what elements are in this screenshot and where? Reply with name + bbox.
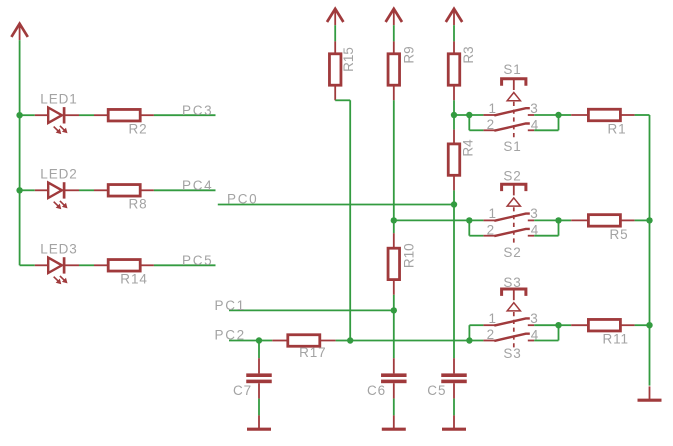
ground right rail bbox=[649, 386, 651, 399]
svg-text:R11: R11 bbox=[603, 331, 629, 346]
wire net PC0 bbox=[218, 204, 454, 206]
svg-text:S1: S1 bbox=[503, 62, 521, 77]
svg-text:C5: C5 bbox=[427, 383, 446, 398]
svg-text:R2: R2 bbox=[129, 122, 148, 137]
pushbutton S3 bbox=[483, 289, 534, 349]
resistor R2 bbox=[94, 114, 108, 116]
wire LED2 cathode to R8 bbox=[79, 189, 94, 191]
wire C7 to ground bbox=[258, 399, 260, 416]
svg-text:R8: R8 bbox=[129, 197, 148, 212]
svg-text:1: 1 bbox=[489, 311, 497, 326]
wire R5 to right rail bbox=[635, 219, 650, 221]
svg-text:R1: R1 bbox=[608, 122, 627, 137]
svg-text:PC0: PC0 bbox=[227, 192, 258, 207]
VCC arrow above R9 bbox=[386, 9, 402, 22]
wire PC2 row to S3 pin2 bbox=[350, 340, 483, 342]
wire R1 to right rail corner bbox=[635, 114, 650, 116]
junction PC2/S3 jog bbox=[466, 337, 472, 343]
wire S2 pin4 up to junction bbox=[534, 235, 558, 237]
svg-text:R3: R3 bbox=[461, 46, 476, 63]
LED LED2 bbox=[35, 189, 48, 191]
svg-text:LED3: LED3 bbox=[40, 241, 77, 256]
svg-text:R9: R9 bbox=[401, 46, 416, 63]
svg-text:PC2: PC2 bbox=[215, 328, 246, 343]
resistor R11 bbox=[559, 324, 572, 326]
svg-text:2: 2 bbox=[487, 327, 495, 342]
svg-text:S2: S2 bbox=[503, 168, 521, 183]
junction S1 pins3-4 bbox=[555, 112, 561, 118]
ground below C6 bbox=[393, 415, 395, 428]
wire right rail vertical bbox=[649, 115, 651, 386]
LED LED1 bbox=[35, 114, 48, 116]
wire x454 column PC0 down to C5 bbox=[453, 205, 455, 359]
junction PC1/R10 bbox=[391, 307, 397, 313]
svg-text:3: 3 bbox=[530, 311, 538, 326]
resistor R3 bbox=[453, 41, 455, 53]
wire S2 row1 from R10 junction to pin1 bbox=[394, 219, 484, 221]
wire LED1 cathode to R2 bbox=[79, 114, 94, 116]
capacitor C6 bbox=[381, 358, 407, 398]
svg-text:LED1: LED1 bbox=[40, 92, 77, 107]
wire S2 pin3 to junction bbox=[534, 219, 558, 221]
svg-text:PC1: PC1 bbox=[215, 298, 246, 313]
junction S2 row1/R10 bbox=[391, 217, 397, 223]
wire S2 jog pin1/pin2 bbox=[468, 220, 470, 235]
wire R10 bottom through PC1 to C6 bbox=[393, 295, 395, 358]
svg-text:S2: S2 bbox=[503, 245, 521, 260]
svg-text:R4: R4 bbox=[460, 139, 475, 157]
junction PC2/C7 bbox=[256, 337, 262, 343]
wire C6 to ground bbox=[393, 399, 395, 416]
svg-text:PC3: PC3 bbox=[182, 103, 213, 118]
resistor R5 bbox=[559, 219, 572, 221]
wire S3 jog row2 to row1 bbox=[468, 325, 470, 340]
wire LED1 row from rail to LED anode bbox=[20, 114, 35, 116]
wire R17 to x350 junction bbox=[336, 340, 351, 342]
resistor R17 bbox=[272, 340, 288, 342]
wire net PC5 stub bbox=[154, 264, 216, 266]
wire LED3 row from rail to LED anode bbox=[20, 264, 35, 266]
wire net PC4 stub bbox=[154, 189, 216, 191]
junction S2 jog bbox=[466, 217, 472, 223]
wire C5 to ground bbox=[453, 399, 455, 416]
resistor R10 bbox=[393, 233, 395, 248]
resistor R1 bbox=[559, 114, 572, 116]
capacitor C7 bbox=[246, 358, 272, 398]
wire net PC3 stub bbox=[154, 114, 216, 116]
wire PC2 to R17 bbox=[259, 340, 272, 342]
svg-text:1: 1 bbox=[489, 101, 497, 116]
wire S3 pin4 up to junction bbox=[534, 340, 558, 342]
svg-text:S1: S1 bbox=[503, 139, 521, 154]
wire net PC1 bbox=[229, 309, 394, 311]
svg-text:LED2: LED2 bbox=[40, 167, 77, 182]
junction S3 pins3-4 bbox=[555, 322, 561, 328]
wire PC2 down to C7 bbox=[258, 341, 260, 359]
wire left VCC rail vertical bbox=[19, 40, 21, 265]
wire VCC to R3 bbox=[453, 25, 455, 41]
wire VCC to R15 bbox=[334, 25, 336, 41]
wire LED3 cathode to R14 bbox=[79, 264, 94, 266]
svg-text:3: 3 bbox=[530, 101, 538, 116]
wire VCC to R9 bbox=[393, 25, 395, 41]
junction R5/right rail bbox=[646, 217, 652, 223]
wire S1 jog pin1/pin2 bbox=[468, 115, 470, 130]
VCC arrow above R15 bbox=[327, 9, 343, 22]
svg-text:PC4: PC4 bbox=[182, 178, 213, 193]
junction rail/LED2 bbox=[16, 187, 22, 193]
junction R11/right rail bbox=[646, 322, 652, 328]
wire S1 row1 from column to pin1 bbox=[454, 114, 483, 116]
svg-text:R17: R17 bbox=[299, 345, 326, 360]
svg-text:R14: R14 bbox=[120, 272, 147, 287]
junction S1 row1/column bbox=[451, 112, 457, 118]
wire x350 column down to PC2 bbox=[349, 100, 351, 340]
wire S3 pin3 to junction bbox=[534, 324, 558, 326]
resistor R4 bbox=[453, 115, 455, 130]
ground below C5 bbox=[453, 415, 455, 428]
svg-text:2: 2 bbox=[487, 222, 495, 237]
junction rail/LED1 bbox=[16, 112, 22, 118]
svg-text:2: 2 bbox=[487, 117, 495, 132]
VCC arrow left supply bbox=[11, 24, 27, 37]
wire R9 down to S2 row bbox=[393, 100, 395, 233]
wire LED2 row from rail to LED anode bbox=[20, 189, 35, 191]
svg-text:R15: R15 bbox=[341, 47, 356, 72]
resistor R14 bbox=[94, 264, 108, 266]
LED LED3 bbox=[35, 264, 48, 266]
wire net PC2 left segment bbox=[229, 340, 259, 342]
junction S2 pins3-4 bbox=[555, 217, 561, 223]
VCC arrow above R3 bbox=[446, 9, 462, 22]
wire S1 pin3 to junction bbox=[534, 114, 558, 116]
pushbutton S1 bbox=[483, 79, 534, 139]
junction PC0/R4 bbox=[451, 201, 457, 207]
wire R3 to S1 row bbox=[453, 100, 455, 115]
wire R4 bottom to PC0 junction bbox=[453, 190, 455, 204]
resistor R8 bbox=[94, 189, 108, 191]
svg-text:PC5: PC5 bbox=[182, 253, 213, 268]
svg-text:S3: S3 bbox=[503, 346, 521, 361]
wire R11 to right rail bbox=[635, 324, 650, 326]
ground below C7 bbox=[258, 415, 260, 428]
resistor R9 bbox=[393, 41, 395, 53]
wire R15 jog to x350 column bbox=[335, 99, 350, 101]
svg-text:R5: R5 bbox=[610, 227, 629, 242]
svg-text:3: 3 bbox=[530, 206, 538, 221]
pushbutton S2 bbox=[483, 184, 534, 244]
svg-text:S3: S3 bbox=[503, 275, 521, 290]
svg-text:C6: C6 bbox=[367, 383, 386, 398]
junction S1 jog bbox=[466, 112, 472, 118]
junction PC2/x350 bbox=[347, 337, 353, 343]
wire S1 pin4 up to junction bbox=[534, 129, 558, 131]
capacitor C5 bbox=[441, 358, 467, 398]
svg-text:R10: R10 bbox=[402, 243, 417, 268]
svg-text:C7: C7 bbox=[233, 383, 252, 398]
resistor R15 bbox=[334, 41, 336, 53]
svg-text:1: 1 bbox=[489, 206, 497, 221]
